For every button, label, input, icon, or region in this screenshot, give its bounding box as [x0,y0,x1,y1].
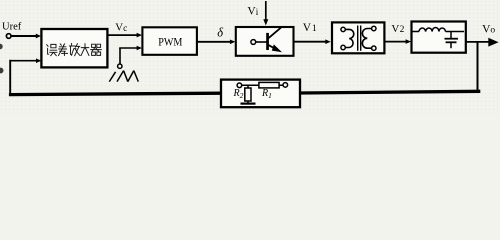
ground bar under R2 [241,102,256,104]
primary winding [346,29,354,47]
block feedback divider R1 R2 [221,80,300,108]
primary terminals [341,27,345,31]
char 放 [69,43,80,55]
transistor Q1 symbol [251,28,282,53]
scan smudge left edge upper [0,44,3,49]
wire Vo output [466,38,499,47]
wire V1 switch to transformer [294,39,331,44]
core [357,26,359,51]
svg-text:V1: V1 [303,22,317,34]
inductor L1 [413,27,465,31]
wire feedback tap from Vo [477,42,479,92]
sawtooth waveform symbol [109,71,138,82]
wire Uref to error amplifier [11,34,41,39]
resistor R1 [259,82,279,88]
char 大 [81,44,89,56]
node sawtooth terminal [118,64,122,68]
secondary winding [362,29,371,49]
node divider left terminal [237,83,242,88]
secondary terminals [372,26,376,30]
wire feedback bottom right segment [300,91,480,93]
block U1 error amplifier [41,29,107,67]
node divider right terminal [283,83,288,88]
char 差 [58,44,67,56]
svg-text:PWM: PWM [158,34,182,48]
wire feedback to error amplifier [9,58,41,63]
char 器 [91,44,102,55]
resistor R2 [245,85,251,103]
wire divider horizontal [242,84,283,86]
wire sawtooth to PWM [119,46,142,64]
scan smudge left edge lower [0,68,4,74]
svg-text:δ: δ [217,26,223,40]
wire Vc error amp to PWM [107,33,142,38]
block U2 PWM comparator [142,27,197,55]
svg-text:V2: V2 [391,23,404,35]
svg-text:Vi: Vi [247,6,258,18]
wire delta PWM to switch [197,40,236,45]
capacitor C1 [445,32,459,49]
wire feedback left vertical [9,60,11,96]
svg-text:Vc: Vc [115,22,127,34]
block Q1 switching transistor [236,27,294,56]
wire feedback bottom left segment [9,93,222,94]
text 误差放大器 (error amplifier) [47,43,102,55]
char 误 [47,45,49,55]
svg-text:Uref: Uref [2,22,22,33]
transformer T1 symbol [341,26,376,51]
block LC filter [412,22,466,53]
transformer T1 block [332,22,384,53]
wire V2 transformer to filter [385,39,412,44]
node Uref input terminal [6,34,11,39]
svg-text:Vo: Vo [482,23,495,35]
wire Vi supply down arrow [263,1,268,26]
